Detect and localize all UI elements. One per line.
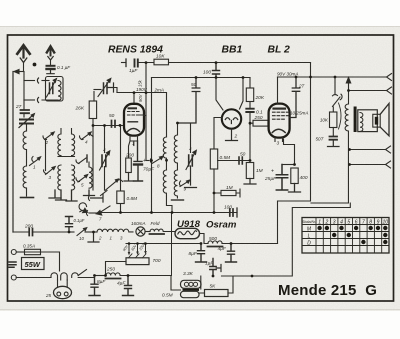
capacitor 1uF [135, 60, 138, 67]
voltage selector resistor 700 [126, 258, 149, 265]
fuse 0.35A [25, 249, 41, 254]
small value labels [15, 54, 329, 299]
trimmer in box [50, 83, 53, 94]
top bus y62 [122, 62, 127, 64]
table dots row L [332, 233, 336, 237]
resistor 200 cathode [129, 141, 131, 158]
switch 4 [82, 134, 90, 140]
tube BL2 bottle [269, 104, 290, 138]
mains symbol [9, 262, 16, 267]
wire band input [23, 72, 25, 101]
mains terminal 1 [11, 250, 16, 255]
border frame [8, 35, 394, 301]
wire antenna to left rail with arrowhead [16, 71, 24, 73]
anode lead [144, 115, 146, 117]
screen bus y77 [152, 77, 251, 79]
selector hooks [51, 273, 58, 280]
BB1 left lead to 0.5M [214, 118, 222, 150]
capacitor 4uF d [123, 276, 134, 296]
coupling wire with cap 50 [218, 160, 250, 162]
55W box [22, 258, 45, 270]
resistor 20K [246, 88, 253, 102]
grid trimmer top [104, 83, 108, 94]
switch contact hooks [37, 78, 38, 83]
resistor 1M [246, 163, 253, 179]
bus 2 right with arrow [349, 90, 388, 92]
wire grid return drop [171, 213, 173, 276]
tube RENS1894 bottle [124, 104, 144, 136]
table dots row M [317, 226, 321, 230]
tuning gang left [102, 155, 106, 167]
BL2 cathode wire [284, 139, 295, 165]
heater coils 2 1 3 [97, 229, 133, 232]
ground L2 [21, 197, 34, 199]
connector terminal row [88, 196, 89, 201]
electrolytic 70uF [134, 141, 143, 181]
resistor 250 [253, 120, 268, 126]
resistor 10K [154, 59, 169, 65]
resistor 5K [205, 290, 229, 297]
capacitor 4uF b [226, 244, 237, 263]
oscillator coil stems [163, 137, 166, 170]
capacitor 200 [29, 229, 32, 236]
switch 10 [69, 231, 74, 233]
capacitor 0.1uF antenna [47, 65, 55, 67]
capacitor 1uF c [210, 259, 216, 277]
switch 1 [32, 157, 33, 162]
capacitor 50 grid [112, 121, 116, 128]
tube BB1 [222, 109, 241, 128]
antenna coil box B1 [46, 77, 64, 102]
switch 9 [179, 181, 180, 186]
coil L2 [23, 166, 26, 188]
switch 3 [46, 168, 54, 175]
capacitor 2T [290, 77, 300, 118]
ground stubs under IF [49, 190, 61, 198]
resistor 1M horizontal [214, 189, 240, 197]
heater bus switch [86, 211, 87, 216]
resistor 0.5M [210, 149, 217, 169]
BL2 anode lead [277, 77, 279, 104]
speaker switch [334, 77, 336, 95]
choke 500 [208, 241, 222, 244]
resistor 10K output [330, 112, 337, 128]
detector BB1 leads [216, 78, 223, 111]
heater bus y212 [98, 212, 237, 214]
IF transformer coils C1 [58, 129, 61, 156]
wire 26K rail [92, 119, 94, 191]
connector line 4 [350, 164, 387, 166]
trimmer capacitor series [20, 120, 33, 124]
switch 5 [78, 176, 86, 182]
speaker box with coil [358, 110, 378, 132]
switch 8 [146, 160, 149, 162]
wire AVC line [120, 126, 122, 213]
G-TEXT: tube type labels [108, 44, 377, 299]
capacitor 100 [213, 63, 220, 78]
wire grid row [93, 125, 124, 127]
rectifier U918 [175, 228, 200, 238]
capacitor 8uF [89, 278, 100, 296]
speaker horn [380, 104, 389, 136]
ground osc [172, 199, 184, 201]
left rail wire [12, 72, 14, 233]
field coil Feld [150, 229, 175, 231]
pilot lamp 160mA [136, 227, 145, 236]
capacitor 4uF a [196, 244, 207, 263]
bus 190V right [278, 76, 388, 78]
resistor 26K [89, 101, 96, 119]
heater ground [88, 232, 99, 242]
antenna A1 [17, 45, 29, 54]
capacitor 50 osc [178, 78, 200, 124]
tube internals [129, 107, 137, 109]
staircase wires right [311, 202, 349, 204]
table dots row D [361, 240, 365, 244]
resistor 0.8M [117, 191, 124, 204]
capacitor 0.1uF heater [66, 217, 73, 233]
grid cap row y92 [117, 93, 167, 138]
antenna ground wire y232 [13, 231, 28, 233]
mains terminal 2 [11, 275, 16, 280]
tuning indicator [79, 203, 87, 212]
capacitor 50T [330, 137, 338, 140]
switch 5a with bar [76, 160, 79, 164]
transformer core [354, 107, 357, 133]
grid leak vertical [144, 63, 146, 161]
wire tap rail [126, 243, 201, 245]
resistor 400 [291, 168, 298, 184]
connector line 3 [350, 149, 387, 151]
IF transformer coils C2 [58, 165, 61, 190]
capacitor 27 [23, 100, 25, 109]
padder trimmer osc [178, 123, 191, 153]
switch 2 column [45, 140, 47, 171]
capacitor 100 heater [230, 209, 233, 216]
heater line to 250 [95, 275, 107, 277]
coil L1 [23, 131, 26, 150]
headphone transformer [181, 280, 202, 288]
selector plug 25 [54, 286, 72, 298]
coil in box [58, 80, 61, 100]
capacitor 0.1 [246, 109, 253, 112]
output transformer primary [345, 91, 348, 204]
coil C3 [89, 162, 92, 188]
choke 250 [106, 273, 120, 276]
antenna A2 [47, 46, 54, 52]
electrolytic 25uF [276, 165, 287, 191]
rectifier feed drop [264, 63, 311, 244]
